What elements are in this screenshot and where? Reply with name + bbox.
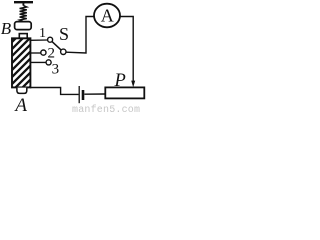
label 3 <box>52 62 60 78</box>
label 2 <box>47 46 55 62</box>
svg-text:1: 1 <box>39 26 46 41</box>
bottom roller contact <box>17 88 27 94</box>
svg-text:manfen5.com: manfen5.com <box>72 104 140 112</box>
svg-text:A: A <box>101 5 114 25</box>
contact 1 terminal <box>48 37 53 42</box>
resistor body (hatched block) <box>4 14 40 113</box>
spring <box>20 3 27 21</box>
rheostat wiper arrow <box>131 81 135 88</box>
svg-text:A: A <box>13 95 27 112</box>
label P <box>114 71 126 91</box>
plate on spring (pan B) <box>15 22 32 30</box>
wire pivot to ammeter <box>66 17 94 54</box>
label A <box>13 95 27 116</box>
svg-text:B: B <box>1 19 12 38</box>
contact 2 terminal <box>41 50 46 55</box>
spring anchor bar <box>14 1 33 3</box>
switch S blade <box>52 41 61 50</box>
wire to contact 1 <box>30 39 48 41</box>
wire to contact 2 <box>30 52 41 54</box>
contact 3 terminal <box>46 60 51 65</box>
label 1 <box>39 26 46 41</box>
rheostat P body <box>105 87 144 98</box>
ammeter A <box>94 4 120 28</box>
wire battery to resistor bottom <box>30 88 79 95</box>
switch S pivot <box>61 49 66 54</box>
svg-text:3: 3 <box>52 62 60 78</box>
watermark <box>72 104 140 116</box>
label B <box>1 19 12 38</box>
svg-text:S: S <box>59 24 69 44</box>
battery <box>79 86 84 103</box>
slider nub <box>19 34 27 39</box>
wire to contact 3 <box>30 61 46 63</box>
label S <box>59 24 69 44</box>
wire ammeter to right drop <box>120 17 133 82</box>
wire rheostat to battery <box>84 93 105 95</box>
